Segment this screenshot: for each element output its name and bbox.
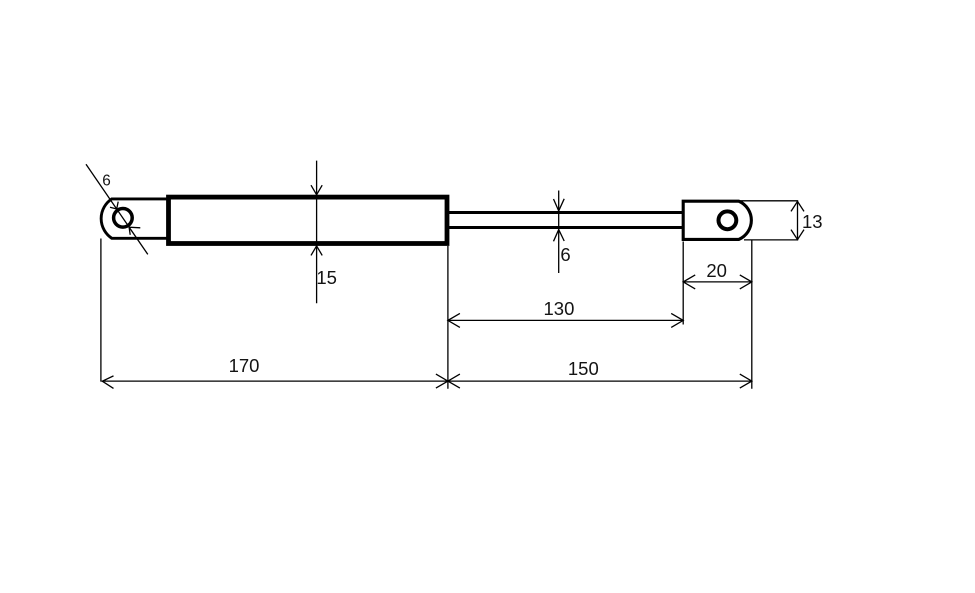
dimension 15 line [316, 161, 318, 304]
right eyelet hole [719, 211, 737, 229]
left eyelet [101, 199, 167, 238]
dim6 arrow up [554, 230, 565, 242]
svg-text:15: 15 [316, 267, 337, 288]
dim150 arrow left [448, 374, 460, 388]
dim170 arrow left [102, 376, 113, 389]
dim15 arrow up [311, 246, 322, 256]
svg-text:6: 6 [102, 172, 111, 189]
extension bottom right 13 [744, 239, 798, 241]
dim13 arrow up [791, 201, 804, 211]
dim150 arrow right [740, 374, 752, 388]
svg-text:13: 13 [802, 211, 823, 232]
dimension 13 line [797, 201, 799, 240]
dim130 arrow left [448, 313, 460, 327]
svg-text:20: 20 [706, 260, 727, 281]
dim6 arrow down [554, 199, 565, 211]
leader arrow upper [110, 202, 118, 209]
svg-text:130: 130 [544, 298, 575, 319]
svg-text:170: 170 [229, 355, 260, 376]
dim20 arrow left [683, 275, 695, 289]
leader line dia 6 [86, 164, 148, 254]
extension line x752 [751, 240, 753, 389]
dimension 20 line [683, 281, 752, 283]
dim170 arrow right [436, 374, 448, 388]
cylinder body [169, 197, 448, 243]
dimension 130 line [448, 319, 683, 321]
right eyelet [683, 201, 751, 239]
extension line x101 [100, 239, 102, 382]
leader arrow lower [129, 227, 140, 235]
extension top right 13 [739, 200, 798, 202]
dim130 arrow right [671, 313, 683, 327]
rod bottom line [447, 226, 683, 229]
dim13 arrow down [791, 230, 804, 240]
extension line x448 [447, 246, 449, 389]
svg-text:6: 6 [560, 244, 570, 265]
extension line x683 [682, 242, 684, 325]
svg-text:150: 150 [568, 358, 599, 379]
rod top line [447, 211, 683, 214]
dimension 170-150 line [102, 380, 752, 382]
dim15 arrow down [311, 185, 322, 195]
dim20 arrow right [740, 275, 752, 289]
dimension 6 rod line [558, 191, 560, 274]
left eyelet hole [114, 209, 133, 228]
